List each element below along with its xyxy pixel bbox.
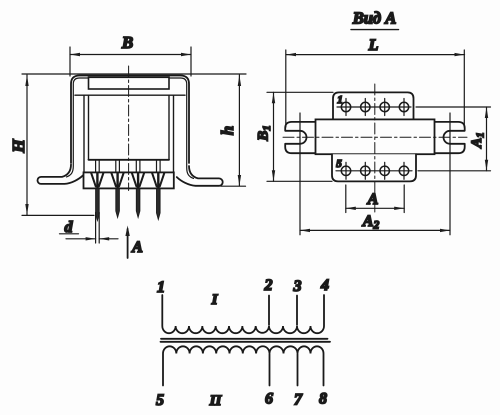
right mounting lug [434,122,465,153]
svg-text:A1: A1 [469,132,487,149]
svg-text:3: 3 [293,278,302,295]
svg-text:6: 6 [265,391,273,408]
node vertical centerline of view A [374,84,376,213]
dimension h [221,75,246,186]
pin 4 [152,160,164,219]
svg-text:4: 4 [320,277,329,294]
wire top extension line of front view [22,73,246,75]
pin hole 7 bottom [380,166,389,175]
hole cross ticks top [346,99,404,116]
core line lower [161,341,331,343]
svg-text:1: 1 [337,94,343,106]
dimension H [22,75,94,215]
pin hole 5 bottom [341,166,350,175]
svg-text:A: A [367,191,379,208]
core top tab [89,77,170,89]
svg-text:B1: B1 [256,125,274,142]
winding II tap lead 7 [297,354,299,386]
svg-text:L: L [368,37,379,54]
top pin plate [333,92,414,119]
dimension A1 [416,107,491,171]
svg-text:5: 5 [156,392,164,409]
svg-text:Вид А: Вид А [352,9,397,28]
dimension d [66,213,118,244]
svg-text:h: h [218,126,237,135]
svg-text:I: I [211,292,219,308]
winding I tap lead 2 [268,296,270,326]
node centerline of front view [128,66,130,191]
winding I [162,295,324,333]
svg-text:A: A [131,239,143,256]
wire hole row line bottom [336,170,412,172]
pin 3 [132,160,144,217]
svg-text:5: 5 [336,158,342,170]
bobbin pin flange [84,172,174,188]
svg-text:7: 7 [294,392,303,409]
wire core bottom line [89,159,170,161]
winding I tap lead 3 [296,296,298,326]
dimension A2 [300,113,450,235]
pin hole 8 bottom [399,166,408,175]
pin hole 4 top [399,102,408,111]
dimension B [70,47,191,76]
hole cross ticks bottom [346,162,404,179]
pin hole 1 top [341,102,350,111]
svg-text:B: B [121,33,133,52]
winding II tap lead 6 [269,354,271,386]
pin 2 [111,160,123,217]
wire core window left edge [88,95,90,160]
wire bobbin left edge [83,95,85,172]
coil body [316,119,435,154]
pin hole 3 top [380,102,389,111]
view direction arrow A [127,229,129,258]
transformer bracket outer contour [71,76,189,164]
left mounting lug [285,122,316,153]
bracket inner contour [67,78,194,178]
pin 1 [91,160,103,220]
svg-text:2: 2 [264,277,273,294]
pin hole 6 bottom [361,166,370,175]
wire core window right edge [168,95,170,160]
wire bobbin right edge [173,95,175,172]
svg-text:8: 8 [319,391,327,408]
svg-text:H: H [9,139,28,154]
svg-text:II: II [209,393,223,409]
pin hole 2 top [361,102,370,111]
svg-text:1: 1 [157,279,165,296]
bottom pin plate [332,154,416,181]
wire hole row line top [337,106,411,108]
winding II [163,346,324,385]
right mounting foot [177,166,223,186]
node horizontal centerline of view A [283,136,467,138]
svg-text:A2: A2 [362,213,380,232]
wire bobbin top line [75,94,185,96]
dimension B1 [267,92,333,181]
dimension A [346,185,404,213]
core line upper [161,338,328,340]
left mounting foot [38,165,84,184]
